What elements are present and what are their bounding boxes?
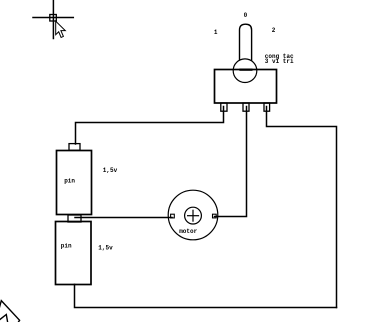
wire: switch pin0 down to motor right terminal bbox=[215, 107, 247, 217]
motor M right terminal bbox=[213, 214, 217, 218]
svg-text:0: 0 bbox=[244, 12, 248, 19]
battery B2 body bbox=[56, 222, 92, 285]
battery B2 positive nub bbox=[68, 215, 81, 222]
svg-text:1,5v: 1,5v bbox=[98, 245, 113, 252]
switch SW slot bar bbox=[239, 69, 252, 71]
switch terminal pin 2 bbox=[264, 103, 270, 111]
battery B1 positive nub bbox=[69, 144, 80, 151]
crosshair cursor horizontal line bbox=[33, 17, 73, 19]
svg-text:pin: pin bbox=[64, 178, 75, 185]
svg-text:motor: motor bbox=[179, 228, 197, 235]
svg-text:1: 1 bbox=[214, 29, 218, 36]
svg-text:pin: pin bbox=[61, 243, 72, 250]
switch SW lever bbox=[240, 24, 252, 60]
motor M left terminal bbox=[171, 214, 175, 218]
svg-text:2: 2 bbox=[272, 27, 276, 34]
wire: battery B2 negative along bottom bbox=[75, 284, 337, 307]
motor M outer circle bbox=[168, 190, 218, 240]
crosshair pickbox bbox=[50, 15, 57, 22]
mouse cursor arrow bbox=[56, 21, 66, 37]
bottom-left cursor arrow (clipped) bbox=[0, 301, 20, 322]
motor M inner circle bbox=[185, 207, 202, 224]
svg-text:3 vi tri: 3 vi tri bbox=[265, 58, 294, 65]
svg-text:1,5v: 1,5v bbox=[103, 167, 118, 174]
motor M cross vertical bbox=[192, 210, 194, 221]
switch SW body bbox=[215, 70, 277, 104]
switch terminal pin 0 bbox=[243, 103, 249, 111]
wire: switch pin1 to battery B1 positive bbox=[76, 107, 224, 145]
motor M cross horizontal bbox=[188, 215, 199, 217]
switch terminal pin 1 bbox=[221, 103, 227, 111]
wire: battery junction to motor left terminal bbox=[75, 217, 172, 219]
switch SW ball bbox=[233, 59, 257, 83]
crosshair cursor vertical line bbox=[52, 0, 54, 39]
wire: switch pin2 right and down bbox=[267, 107, 337, 308]
battery B1 body bbox=[57, 151, 92, 215]
